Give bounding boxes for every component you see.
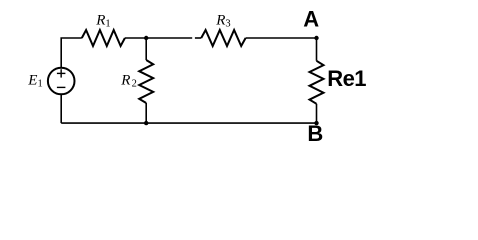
wire left rail lower (bottom-left corner to E1 bottom)	[60, 94, 62, 123]
wire R3 right to node A	[246, 37, 317, 39]
wire gap to R3 left	[195, 37, 201, 39]
wire Re1 bottom to node B	[316, 104, 318, 123]
node A dot	[314, 36, 318, 40]
label Re1	[327, 66, 366, 91]
wire node A down to Re1	[316, 38, 318, 61]
resistor Re1	[310, 61, 324, 104]
svg-text:R1: R1	[95, 12, 110, 29]
wire R1 right to junction node	[125, 37, 146, 39]
label A	[303, 7, 319, 32]
label E1	[27, 72, 42, 89]
voltage source E1 circle	[48, 68, 75, 95]
label R1	[95, 12, 110, 29]
resistor R2	[139, 60, 153, 103]
svg-text:E1: E1	[27, 72, 42, 89]
E1 minus sign	[57, 86, 66, 88]
label R3	[215, 12, 230, 29]
bottom rail wire	[61, 122, 316, 124]
junction dot (R1/R2/R3)	[144, 36, 148, 40]
svg-text:Re1: Re1	[327, 66, 366, 91]
resistor R3	[201, 30, 245, 46]
svg-text:A: A	[303, 7, 319, 32]
wire left rail upper (E1 top to top-left corner)	[61, 38, 82, 68]
wire R2 bottom to bottom rail	[145, 103, 147, 123]
svg-text:R2: R2	[120, 72, 137, 89]
junction dot bottom (R2/bottom rail)	[144, 121, 148, 125]
wire junction down to R2	[145, 38, 147, 60]
resistor R1	[82, 30, 125, 46]
E1 plus sign	[57, 69, 66, 77]
node B dot	[314, 121, 318, 125]
wire junction to gap	[146, 37, 192, 39]
label B	[307, 121, 323, 146]
label R2	[120, 72, 137, 89]
svg-text:R3: R3	[215, 12, 230, 29]
svg-text:B: B	[307, 121, 323, 146]
